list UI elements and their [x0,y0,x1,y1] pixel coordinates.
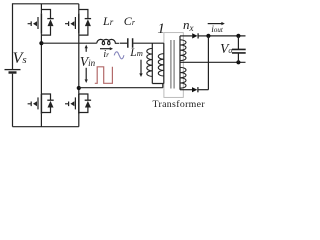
Q3 body diode loop [41,94,50,113]
leg A wire bottom [40,114,42,127]
Q1 gate bar [37,17,39,29]
secondary bottom wire to D2 [180,89,192,91]
label 1 [157,22,165,37]
Q4 gate lead [65,102,69,107]
bottom rail [13,126,79,128]
leg A wire mid [40,34,42,94]
Q4 body diode loop [79,94,88,113]
Vin down arrow [85,68,87,80]
Q4 gate bar [74,97,76,109]
Q3 arrow [33,101,37,106]
node dot cap bottom [236,60,240,64]
leg B wire bottom [78,114,80,127]
wire D2 to riser [198,89,209,91]
iout arrow [208,23,223,25]
square wave (red) [95,67,113,84]
inductor Lm spine [151,43,153,83]
top rail [13,3,79,5]
Q2 gate bar [74,17,76,29]
Lm turns [147,48,153,76]
Q2 diode triangle [85,19,91,26]
Q2 arrow [70,21,74,26]
Q1 diode triangle [48,19,54,26]
label Transformer [153,100,205,110]
wire D1 to node [198,35,208,37]
Q3 diode bar [47,99,53,101]
battery Vs plate long [5,69,21,71]
node dot cap top [236,34,240,38]
diode D2 triangle [192,87,197,92]
Vin up arrow [85,48,87,52]
Q2 gate lead [65,21,69,26]
Q4 diode triangle [85,101,91,108]
tank wire from node A [41,42,96,44]
Q1 gate lead [28,21,32,26]
leg A wire top [40,4,42,14]
Q1 body diode loop [41,10,50,36]
secondary top wire to D1 [180,35,192,37]
node A dot [39,41,43,45]
Q2 body diode loop [79,10,88,36]
label Vs [13,51,27,67]
diode D1 triangle [192,33,197,38]
Q3 diode triangle [48,101,54,108]
node dot D1 out [206,34,210,38]
Q2 diode bar [85,18,91,20]
Q4 diode bar [85,99,91,101]
transformer core lines [171,40,174,89]
return wire node B to transformer [79,87,163,89]
secondary turns bottom [180,67,186,88]
capacitor Cr plates [128,38,133,48]
transistor Q4 channel [78,94,80,114]
transformer secondary spine [179,36,181,90]
label ir [103,50,109,60]
label nx [183,18,194,33]
Q1 diode bar [47,18,53,20]
ir arrow [100,48,111,50]
primary bottom connector [152,84,164,88]
transistor Q2 channel [78,13,80,33]
label iout [211,26,223,36]
label Lm [130,48,143,60]
label Vin [80,55,95,69]
transistor Q1 channel [40,13,42,33]
left wire upper [12,3,14,69]
Q1 arrow [33,21,37,26]
inductor Lr coil [97,39,119,44]
wire Cr to transformer [133,42,164,44]
Q3 gate lead [28,102,32,107]
label Vo [220,42,232,56]
left wire lower [12,74,14,127]
transformer outline box [164,33,183,98]
sine wave (blue) [114,52,124,59]
riser D2 to top rail [207,36,209,90]
D2 bar [197,87,199,92]
Q3 gate bar [37,97,39,109]
node B dot [77,86,81,90]
D1 bar [197,33,199,38]
output capacitor stubs [237,36,239,62]
leg B wire top [78,4,80,14]
leg B wire mid (crosses tank line, no junction) [78,34,80,94]
label Cr [124,15,135,27]
battery Vs plate short [9,71,17,73]
output capacitor plates [232,49,246,53]
Q4 arrow [70,101,74,106]
primary turns [158,54,164,76]
transformer primary spine [163,43,165,83]
secondary turns top [180,40,186,61]
transistor Q3 channel [40,94,42,114]
label Lr [103,15,113,27]
wire Lr to Cr [120,42,128,44]
Lm current arrow (down) [140,60,142,74]
center tap wire [180,61,246,63]
output top rail [208,35,245,37]
